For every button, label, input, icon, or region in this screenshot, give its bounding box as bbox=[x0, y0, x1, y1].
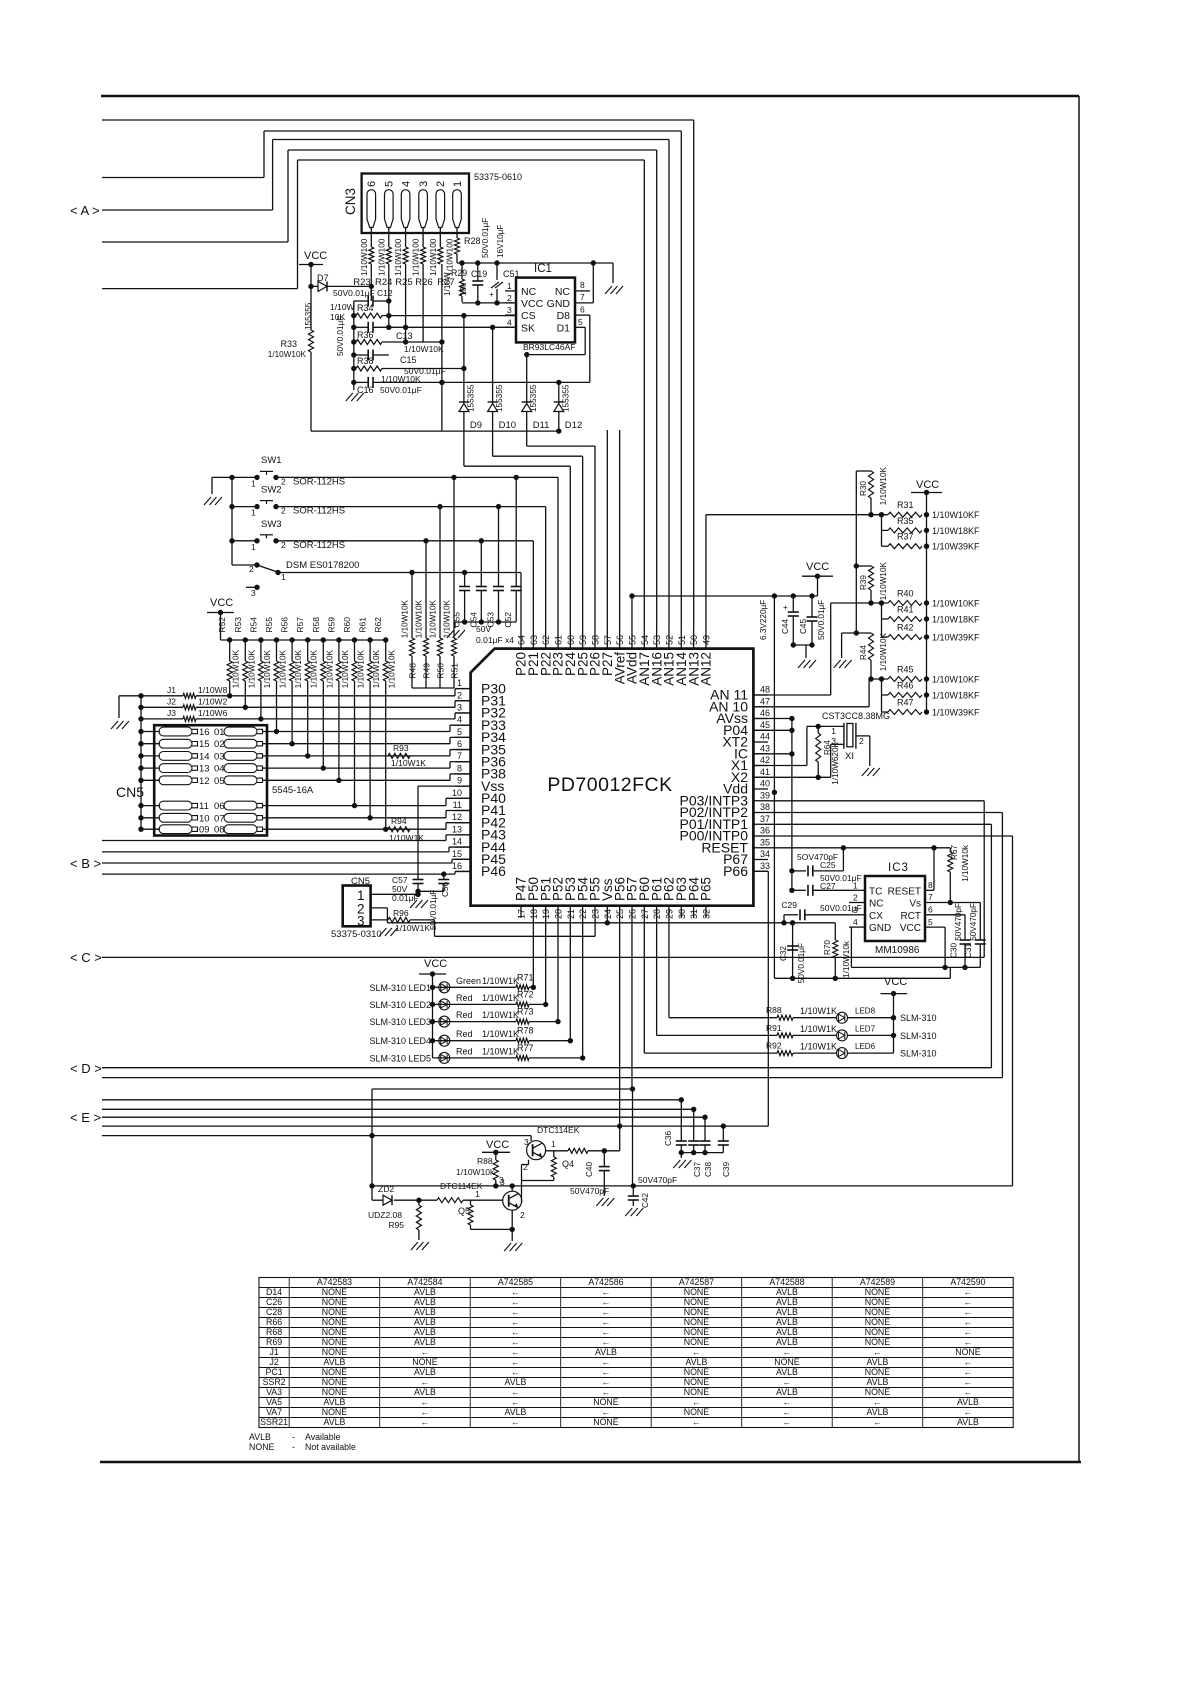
svg-text:AVLB: AVLB bbox=[776, 1297, 798, 1307]
svg-text:R60: R60 bbox=[342, 617, 352, 633]
svg-text:R47: R47 bbox=[897, 698, 914, 708]
svg-text:1/10W1K: 1/10W1K bbox=[800, 1042, 837, 1052]
svg-text:VA5: VA5 bbox=[266, 1397, 282, 1407]
svg-text:VCC: VCC bbox=[486, 1139, 509, 1151]
svg-text:07: 07 bbox=[214, 813, 225, 824]
svg-text:←: ← bbox=[511, 1287, 520, 1297]
svg-text:7: 7 bbox=[928, 892, 933, 902]
svg-text:R52: R52 bbox=[217, 617, 227, 633]
svg-text:←: ← bbox=[602, 1287, 611, 1297]
svg-text:44: 44 bbox=[760, 732, 770, 742]
svg-text:1/10W10K: 1/10W10K bbox=[388, 649, 397, 688]
svg-text:1/10W10K: 1/10W10K bbox=[415, 599, 424, 638]
svg-text:1/10W10K: 1/10W10K bbox=[232, 649, 241, 688]
svg-text:R66: R66 bbox=[266, 1317, 282, 1327]
svg-text:←: ← bbox=[964, 1297, 973, 1307]
svg-text:AVLB: AVLB bbox=[414, 1297, 436, 1307]
svg-text:AVLB: AVLB bbox=[686, 1357, 708, 1367]
svg-text:R42: R42 bbox=[897, 623, 914, 633]
svg-text:R55: R55 bbox=[264, 617, 274, 633]
svg-text:AVLB: AVLB bbox=[867, 1407, 889, 1417]
svg-text:NONE: NONE bbox=[322, 1337, 348, 1347]
svg-text:2: 2 bbox=[859, 736, 864, 746]
svg-text:←: ← bbox=[692, 1417, 701, 1427]
svg-text:NONE: NONE bbox=[684, 1367, 710, 1377]
svg-text:50V0.01μF: 50V0.01μF bbox=[333, 288, 375, 298]
svg-text:NONE: NONE bbox=[955, 1347, 981, 1357]
svg-text:45: 45 bbox=[760, 720, 770, 730]
svg-text:9: 9 bbox=[457, 776, 462, 786]
svg-text:C55: C55 bbox=[452, 612, 462, 628]
svg-text:< C >: < C > bbox=[70, 950, 102, 965]
svg-text:AVLB: AVLB bbox=[505, 1407, 527, 1417]
svg-text:1/10W10K: 1/10W10K bbox=[879, 632, 888, 671]
svg-text:1/10W6: 1/10W6 bbox=[198, 708, 228, 718]
svg-text:1/10W10K: 1/10W10K bbox=[341, 649, 350, 688]
svg-text:1/10W10K: 1/10W10K bbox=[404, 344, 444, 354]
svg-text:AVLB: AVLB bbox=[867, 1357, 889, 1367]
svg-text:13: 13 bbox=[452, 824, 462, 834]
svg-text:←: ← bbox=[602, 1357, 611, 1367]
svg-text:←: ← bbox=[602, 1367, 611, 1377]
svg-text:D8: D8 bbox=[557, 310, 571, 322]
svg-text:8: 8 bbox=[457, 763, 462, 773]
svg-text:←: ← bbox=[511, 1397, 520, 1407]
svg-text:50V470pF: 50V470pF bbox=[969, 903, 978, 941]
svg-text:16: 16 bbox=[452, 861, 462, 871]
svg-text:LED6: LED6 bbox=[855, 1042, 876, 1051]
svg-text:15: 15 bbox=[452, 849, 462, 859]
svg-text:15: 15 bbox=[199, 739, 210, 750]
svg-text:AVLB: AVLB bbox=[414, 1387, 436, 1397]
svg-text:AVLB: AVLB bbox=[414, 1367, 436, 1377]
svg-text:1/10W10K: 1/10W10K bbox=[263, 649, 272, 688]
svg-text:←: ← bbox=[602, 1317, 611, 1327]
svg-text:1/10W18KF: 1/10W18KF bbox=[932, 615, 980, 625]
svg-text:R73: R73 bbox=[517, 1007, 534, 1017]
svg-text:1/10W1K: 1/10W1K bbox=[482, 993, 519, 1003]
svg-text:←: ← bbox=[964, 1387, 973, 1397]
svg-text:Red: Red bbox=[456, 1029, 473, 1039]
svg-text:< A >: < A > bbox=[70, 203, 100, 218]
svg-text:03: 03 bbox=[214, 751, 225, 762]
svg-text:16: 16 bbox=[199, 727, 210, 738]
svg-text:02: 02 bbox=[214, 739, 225, 750]
svg-text:1/10W1K: 1/10W1K bbox=[395, 923, 430, 933]
svg-text:08: 08 bbox=[214, 825, 225, 836]
svg-text:VCC: VCC bbox=[210, 597, 233, 609]
svg-text:14: 14 bbox=[199, 751, 210, 762]
svg-text:1/10W100: 1/10W100 bbox=[377, 238, 386, 276]
svg-text:47: 47 bbox=[760, 696, 770, 706]
svg-text:1: 1 bbox=[251, 542, 256, 552]
svg-text:6: 6 bbox=[457, 739, 462, 749]
svg-text:1/10W1K: 1/10W1K bbox=[482, 976, 519, 986]
svg-text:35: 35 bbox=[760, 837, 770, 847]
svg-text:NONE: NONE bbox=[322, 1407, 348, 1417]
svg-text:+: + bbox=[783, 603, 788, 612]
svg-text:RCT: RCT bbox=[900, 911, 921, 922]
svg-text:3: 3 bbox=[500, 1177, 505, 1187]
svg-text:R50: R50 bbox=[436, 663, 446, 679]
svg-text:←: ← bbox=[421, 1347, 430, 1357]
svg-text:R59: R59 bbox=[326, 617, 336, 633]
svg-text:50V0.01μF: 50V0.01μF bbox=[817, 600, 826, 640]
svg-text:39: 39 bbox=[760, 790, 770, 800]
svg-text:NONE: NONE bbox=[684, 1297, 710, 1307]
svg-text:VCC: VCC bbox=[521, 298, 544, 310]
svg-text:AVLB: AVLB bbox=[867, 1377, 889, 1387]
svg-text:C52: C52 bbox=[503, 612, 513, 628]
svg-text:C37: C37 bbox=[693, 1162, 702, 1177]
svg-text:1/10W1K: 1/10W1K bbox=[800, 1024, 837, 1034]
svg-text:10k: 10k bbox=[459, 282, 468, 296]
svg-text:6: 6 bbox=[928, 905, 933, 915]
svg-text:CN3: CN3 bbox=[343, 188, 358, 215]
svg-text:←: ← bbox=[964, 1357, 973, 1367]
svg-text:1/10W: 1/10W bbox=[443, 272, 452, 296]
svg-text:01: 01 bbox=[214, 727, 225, 738]
svg-text:1/10W10KF: 1/10W10KF bbox=[932, 599, 980, 609]
svg-text:NONE: NONE bbox=[322, 1367, 348, 1377]
svg-text:R37: R37 bbox=[897, 532, 914, 542]
svg-text:SSR21: SSR21 bbox=[260, 1417, 288, 1427]
svg-text:46: 46 bbox=[760, 708, 770, 718]
svg-text:SW2: SW2 bbox=[261, 485, 282, 496]
svg-text:P65: P65 bbox=[699, 877, 714, 901]
svg-text:A742584: A742584 bbox=[407, 1277, 442, 1287]
svg-text:R48: R48 bbox=[408, 663, 418, 679]
svg-text:50V470pF: 50V470pF bbox=[570, 1186, 609, 1196]
svg-text:IC3: IC3 bbox=[888, 862, 909, 874]
svg-text:J2: J2 bbox=[167, 696, 176, 706]
svg-text:←: ← bbox=[511, 1367, 520, 1377]
svg-text:SLM-310 LED1: SLM-310 LED1 bbox=[369, 983, 431, 993]
svg-text:←: ← bbox=[511, 1347, 520, 1357]
svg-text:2: 2 bbox=[457, 690, 462, 700]
svg-text:16V10μF: 16V10μF bbox=[496, 225, 505, 258]
svg-text:NONE: NONE bbox=[865, 1387, 891, 1397]
svg-text:SLM-310 LED2: SLM-310 LED2 bbox=[369, 1000, 431, 1010]
svg-text:50V0.01μF: 50V0.01μF bbox=[429, 890, 438, 930]
svg-text:R95: R95 bbox=[388, 1220, 404, 1230]
svg-text:2: 2 bbox=[520, 1210, 525, 1220]
svg-text:50V0.01μF: 50V0.01μF bbox=[820, 903, 862, 913]
svg-text:11: 11 bbox=[199, 801, 209, 812]
svg-text:R31: R31 bbox=[897, 500, 914, 510]
svg-text:R78: R78 bbox=[517, 1026, 534, 1036]
svg-text:XI: XI bbox=[845, 751, 854, 762]
svg-text:41: 41 bbox=[760, 767, 770, 777]
svg-text:< E >: < E > bbox=[70, 1110, 101, 1125]
svg-text:8: 8 bbox=[580, 280, 585, 290]
svg-text:R62: R62 bbox=[373, 617, 383, 633]
svg-text:1/10W: 1/10W bbox=[330, 302, 355, 312]
svg-text:SLM-310: SLM-310 bbox=[900, 1013, 937, 1023]
svg-text:50V0.01μF: 50V0.01μF bbox=[336, 316, 345, 356]
svg-text:NONE: NONE bbox=[322, 1297, 348, 1307]
svg-text:←: ← bbox=[511, 1337, 520, 1347]
svg-text:4: 4 bbox=[400, 181, 412, 187]
svg-text:R68: R68 bbox=[266, 1327, 282, 1337]
svg-text:C26: C26 bbox=[266, 1297, 282, 1307]
svg-text:1/10W1K: 1/10W1K bbox=[482, 1010, 519, 1020]
svg-text:DTC114EK: DTC114EK bbox=[537, 1125, 580, 1135]
svg-text:-: - bbox=[292, 1432, 295, 1442]
svg-text:SLM-310 LED5: SLM-310 LED5 bbox=[369, 1053, 431, 1063]
svg-text:R93: R93 bbox=[393, 743, 409, 753]
svg-text:13: 13 bbox=[199, 764, 210, 775]
svg-text:PC1: PC1 bbox=[266, 1367, 283, 1377]
svg-text:1/10W10K: 1/10W10K bbox=[429, 599, 438, 638]
svg-text:R28: R28 bbox=[464, 236, 481, 246]
svg-text:R77: R77 bbox=[517, 1043, 534, 1053]
svg-text:←: ← bbox=[421, 1377, 430, 1387]
svg-text:1: 1 bbox=[452, 181, 464, 187]
svg-text:04: 04 bbox=[214, 764, 225, 775]
svg-text:C19: C19 bbox=[471, 269, 487, 279]
svg-text:R41: R41 bbox=[897, 605, 914, 615]
svg-text:AVLB: AVLB bbox=[957, 1397, 979, 1407]
svg-text:←: ← bbox=[602, 1307, 611, 1317]
svg-text:R39: R39 bbox=[859, 575, 868, 590]
svg-text:R57: R57 bbox=[295, 617, 305, 633]
svg-text:37: 37 bbox=[760, 814, 770, 824]
svg-text:NONE: NONE bbox=[865, 1297, 891, 1307]
svg-text:155355: 155355 bbox=[466, 384, 475, 412]
svg-text:NONE: NONE bbox=[322, 1377, 348, 1387]
svg-text:NONE: NONE bbox=[865, 1307, 891, 1317]
svg-text:VCC: VCC bbox=[884, 976, 907, 988]
svg-text:34: 34 bbox=[760, 849, 770, 859]
svg-text:R34: R34 bbox=[357, 303, 374, 313]
svg-text:1/10W100: 1/10W100 bbox=[412, 238, 421, 276]
svg-text:10: 10 bbox=[199, 813, 210, 824]
svg-text:C36: C36 bbox=[664, 1131, 673, 1146]
svg-text:AVLB: AVLB bbox=[414, 1287, 436, 1297]
svg-text:NONE: NONE bbox=[684, 1307, 710, 1317]
svg-text:SOR-112HS: SOR-112HS bbox=[293, 540, 345, 551]
svg-text:MM10986: MM10986 bbox=[875, 945, 920, 956]
svg-text:←: ← bbox=[783, 1377, 792, 1387]
svg-text:11: 11 bbox=[453, 800, 462, 810]
svg-text:1/10W10K: 1/10W10K bbox=[325, 649, 334, 688]
svg-text:2: 2 bbox=[507, 293, 512, 303]
svg-text:7: 7 bbox=[580, 292, 585, 302]
svg-text:5: 5 bbox=[384, 181, 396, 187]
svg-text:←: ← bbox=[421, 1397, 430, 1407]
svg-text:-: - bbox=[292, 1442, 295, 1452]
svg-text:R88: R88 bbox=[477, 1156, 493, 1166]
svg-text:1/10W10k: 1/10W10k bbox=[961, 844, 970, 882]
svg-text:←: ← bbox=[511, 1317, 520, 1327]
svg-text:←: ← bbox=[964, 1287, 973, 1297]
svg-text:R61: R61 bbox=[358, 617, 368, 633]
svg-text:R67: R67 bbox=[950, 845, 959, 860]
svg-text:←: ← bbox=[964, 1327, 973, 1337]
svg-text:←: ← bbox=[964, 1337, 973, 1347]
svg-text:R46: R46 bbox=[897, 681, 914, 691]
svg-text:DSM ES0178200: DSM ES0178200 bbox=[286, 560, 359, 571]
svg-text:1/10W8: 1/10W8 bbox=[198, 685, 228, 695]
svg-text:A742585: A742585 bbox=[498, 1277, 533, 1287]
svg-text:NONE: NONE bbox=[684, 1287, 710, 1297]
svg-text:R38: R38 bbox=[357, 356, 374, 366]
svg-text:SW1: SW1 bbox=[261, 455, 282, 466]
svg-text:NC: NC bbox=[555, 286, 571, 298]
svg-text:←: ← bbox=[421, 1407, 430, 1417]
svg-text:1/10W39KF: 1/10W39KF bbox=[932, 708, 980, 718]
svg-text:R25: R25 bbox=[395, 277, 412, 288]
svg-text:VCC: VCC bbox=[916, 479, 939, 491]
svg-text:←: ← bbox=[511, 1297, 520, 1307]
svg-text:R40: R40 bbox=[897, 589, 914, 599]
svg-text:1/10W100: 1/10W100 bbox=[360, 238, 369, 276]
svg-text:←: ← bbox=[602, 1387, 611, 1397]
svg-text:VCC: VCC bbox=[304, 250, 327, 262]
svg-text:J1: J1 bbox=[167, 685, 176, 695]
svg-text:AVLB: AVLB bbox=[414, 1307, 436, 1317]
svg-text:AVLB: AVLB bbox=[324, 1397, 346, 1407]
svg-text:R45: R45 bbox=[897, 665, 914, 675]
svg-text:< D >: < D > bbox=[70, 1061, 102, 1076]
svg-text:AVLB: AVLB bbox=[414, 1317, 436, 1327]
svg-text:1/10W10K: 1/10W10K bbox=[268, 350, 307, 359]
svg-text:NONE: NONE bbox=[593, 1397, 619, 1407]
svg-text:←: ← bbox=[783, 1397, 792, 1407]
svg-text:P46: P46 bbox=[481, 863, 506, 879]
svg-text:1: 1 bbox=[457, 678, 462, 688]
svg-text:AVLB: AVLB bbox=[249, 1432, 271, 1442]
svg-text:GND: GND bbox=[869, 923, 891, 934]
svg-text:R36: R36 bbox=[357, 330, 374, 340]
svg-text:RESET: RESET bbox=[888, 886, 921, 897]
svg-text:1/10W10K: 1/10W10K bbox=[279, 649, 288, 688]
svg-text:SSR2: SSR2 bbox=[263, 1377, 286, 1387]
svg-text:R30: R30 bbox=[859, 481, 868, 496]
svg-text:NONE: NONE bbox=[865, 1337, 891, 1347]
svg-text:C27: C27 bbox=[820, 881, 836, 891]
svg-text:1/10W39KF: 1/10W39KF bbox=[932, 542, 980, 552]
svg-text:2: 2 bbox=[853, 893, 858, 903]
svg-text:NONE: NONE bbox=[684, 1317, 710, 1327]
svg-text:1/10W10KF: 1/10W10KF bbox=[932, 675, 980, 685]
svg-text:J3: J3 bbox=[167, 708, 176, 718]
svg-text:1: 1 bbox=[551, 1139, 556, 1149]
svg-text:NC: NC bbox=[521, 286, 537, 298]
svg-text:NONE: NONE bbox=[774, 1357, 800, 1367]
svg-text:AVLB: AVLB bbox=[957, 1417, 979, 1427]
svg-text:14: 14 bbox=[452, 837, 462, 847]
svg-text:AVLB: AVLB bbox=[776, 1307, 798, 1317]
svg-text:5: 5 bbox=[457, 727, 462, 737]
svg-text:1/10W10K: 1/10W10K bbox=[247, 649, 256, 688]
svg-text:C15: C15 bbox=[400, 355, 417, 365]
svg-text:1/10W18KF: 1/10W18KF bbox=[932, 526, 980, 536]
svg-text:3: 3 bbox=[251, 588, 256, 598]
svg-text:2: 2 bbox=[523, 1162, 528, 1172]
svg-text:R49: R49 bbox=[422, 663, 432, 679]
svg-text:6.3V220μF: 6.3V220μF bbox=[759, 600, 768, 640]
svg-text:6: 6 bbox=[580, 305, 585, 315]
svg-text:Red: Red bbox=[456, 1010, 473, 1020]
svg-text:C12: C12 bbox=[377, 288, 393, 298]
svg-text:NONE: NONE bbox=[322, 1287, 348, 1297]
svg-text:D1: D1 bbox=[557, 322, 571, 334]
svg-text:R96: R96 bbox=[393, 908, 409, 918]
svg-text:CX: CX bbox=[869, 911, 883, 922]
svg-text:←: ← bbox=[692, 1397, 701, 1407]
svg-text:CS: CS bbox=[521, 310, 536, 322]
svg-text:4: 4 bbox=[457, 715, 462, 725]
svg-text:AVLB: AVLB bbox=[776, 1317, 798, 1327]
svg-text:CN5: CN5 bbox=[351, 876, 370, 887]
svg-text:50V0.01μF: 50V0.01μF bbox=[380, 385, 422, 395]
svg-text:NONE: NONE bbox=[684, 1337, 710, 1347]
svg-text:1/10W1K: 1/10W1K bbox=[482, 1029, 519, 1039]
svg-text:NONE: NONE bbox=[249, 1442, 275, 1452]
svg-text:←: ← bbox=[783, 1347, 792, 1357]
svg-text:1: 1 bbox=[831, 726, 836, 736]
svg-text:R69: R69 bbox=[266, 1337, 282, 1347]
svg-text:C13: C13 bbox=[396, 331, 413, 341]
svg-text:C39: C39 bbox=[722, 1162, 731, 1177]
svg-text:1/10W10k: 1/10W10k bbox=[842, 940, 851, 978]
svg-text:←: ← bbox=[602, 1377, 611, 1387]
svg-text:CST3CC8.38MG: CST3CC8.38MG bbox=[822, 711, 890, 721]
svg-text:SLM-310: SLM-310 bbox=[900, 1031, 937, 1041]
svg-text:GND: GND bbox=[547, 298, 571, 310]
svg-text:P66: P66 bbox=[723, 863, 748, 879]
svg-text:Not available: Not available bbox=[305, 1442, 356, 1452]
svg-text:D9: D9 bbox=[470, 420, 482, 431]
svg-text:Available: Available bbox=[305, 1432, 341, 1442]
svg-text:1/10W2: 1/10W2 bbox=[198, 696, 228, 706]
svg-text:Vs: Vs bbox=[909, 899, 921, 910]
svg-text:C42: C42 bbox=[641, 1193, 650, 1208]
svg-text:38: 38 bbox=[760, 802, 770, 812]
svg-text:1/10W1K: 1/10W1K bbox=[391, 758, 426, 768]
svg-text:3: 3 bbox=[457, 702, 462, 712]
svg-text:53375-0610: 53375-0610 bbox=[474, 172, 522, 182]
svg-text:VA7: VA7 bbox=[266, 1407, 282, 1417]
svg-text:1/10W100: 1/10W100 bbox=[394, 238, 403, 276]
svg-text:1: 1 bbox=[507, 281, 512, 291]
svg-text:NONE: NONE bbox=[322, 1387, 348, 1397]
svg-text:SLM-310 LED3: SLM-310 LED3 bbox=[369, 1017, 431, 1027]
svg-text:NONE: NONE bbox=[684, 1377, 710, 1387]
svg-text:NONE: NONE bbox=[593, 1417, 619, 1427]
svg-text:R72: R72 bbox=[517, 989, 534, 999]
svg-text:←: ← bbox=[511, 1307, 520, 1317]
svg-text:C30: C30 bbox=[950, 943, 959, 958]
svg-text:NONE: NONE bbox=[322, 1307, 348, 1317]
svg-text:D12: D12 bbox=[565, 420, 582, 431]
svg-text:1/10W100: 1/10W100 bbox=[429, 238, 438, 276]
svg-text:←: ← bbox=[602, 1337, 611, 1347]
svg-text:D14: D14 bbox=[266, 1287, 282, 1297]
svg-text:VCC: VCC bbox=[900, 923, 921, 934]
svg-text:VA3: VA3 bbox=[266, 1387, 282, 1397]
svg-text:C38: C38 bbox=[704, 1162, 713, 1177]
svg-text:←: ← bbox=[602, 1297, 611, 1307]
svg-text:C44: C44 bbox=[781, 619, 790, 634]
svg-text:2: 2 bbox=[435, 181, 447, 187]
svg-text:SLM-310: SLM-310 bbox=[900, 1049, 937, 1059]
svg-text:Red: Red bbox=[456, 1046, 473, 1056]
svg-text:42: 42 bbox=[760, 755, 770, 765]
svg-text:BR93LC46AF: BR93LC46AF bbox=[523, 342, 575, 352]
